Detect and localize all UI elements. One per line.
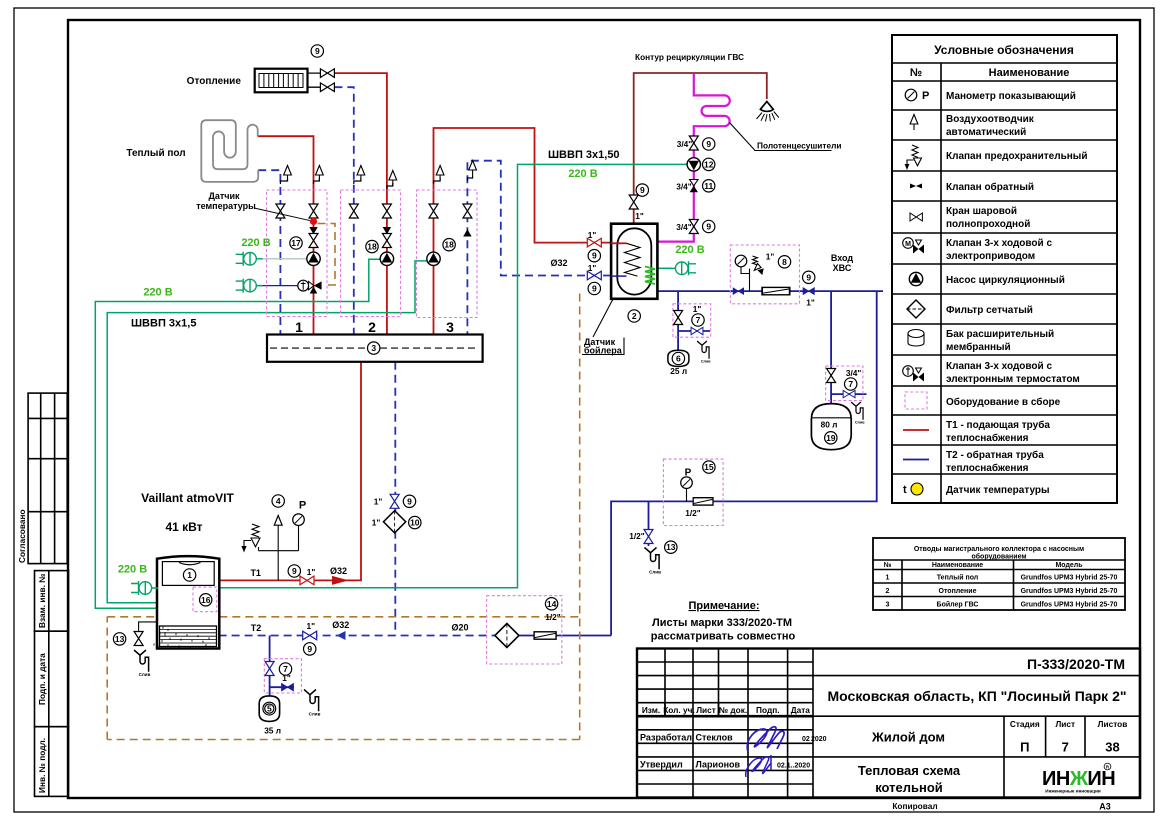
svg-text:№: № (910, 67, 922, 79)
svg-text:Отводы магистрального коллекто: Отводы магистрального коллектора с насос… (914, 546, 1084, 553)
svg-text:19: 19 (826, 433, 836, 443)
air vent triangles all groups (316, 166, 324, 182)
node 10 (409, 516, 421, 528)
box pump group 3 (417, 190, 478, 318)
wire branch to exp tank 6 (678, 291, 710, 350)
plug 220V 3way (236, 279, 263, 293)
svg-text:7: 7 (696, 315, 701, 325)
box 7 tank5 assembly (264, 659, 301, 693)
svg-text:220 В: 220 В (675, 244, 704, 256)
box8 gauge (735, 255, 747, 267)
svg-text:оборудованием: оборудованием (971, 553, 1026, 561)
svg-text:12: 12 (704, 159, 714, 169)
svg-text:№: № (884, 561, 892, 569)
node 3 circled (368, 342, 380, 354)
wire T1 floor supply to group1 (258, 136, 314, 334)
node 7 tank5 (279, 663, 291, 675)
svg-text:Вход: Вход (831, 253, 854, 263)
legend row11 equipment box symbol (905, 392, 927, 409)
svg-text:3: 3 (446, 319, 454, 335)
INJIN logo (1042, 763, 1115, 793)
floor heating coil (201, 120, 258, 182)
svg-text:Р: Р (922, 90, 929, 102)
box 7 tank6 assembly (673, 304, 711, 337)
drain tank6 (697, 341, 711, 363)
svg-text:13: 13 (115, 634, 125, 644)
exp tank 5 (259, 696, 279, 722)
svg-text:1/2": 1/2" (685, 508, 701, 518)
valve makeup drain 13 (644, 530, 653, 544)
temperature sensor dot (310, 218, 317, 225)
valve radiator supply (320, 69, 334, 78)
svg-text:Условные обозначения: Условные обозначения (934, 43, 1074, 57)
svg-text:Клапан обратный: Клапан обратный (946, 181, 1034, 193)
wire T2 solid after filter (519, 635, 611, 637)
svg-text:П-333/2020-ТМ: П-333/2020-ТМ (1027, 656, 1125, 672)
svg-text:Р: Р (299, 500, 306, 512)
wire makeup water down (611, 291, 877, 635)
legend row3 safety valve symbol (905, 145, 921, 169)
node 5 circled (263, 702, 276, 715)
node 6 circled (672, 352, 684, 364)
svg-text:2: 2 (886, 588, 890, 595)
svg-text:41 кВт: 41 кВт (165, 520, 202, 534)
boiler drain pipe 13 (139, 622, 158, 632)
svg-text:1": 1" (588, 230, 597, 240)
svg-text:1: 1 (886, 575, 890, 582)
node 17 (290, 237, 302, 249)
box 15 gauge assembly (663, 459, 723, 525)
wire plug1 to pump1 (pale) (257, 258, 307, 260)
svg-text:Стеклов: Стеклов (696, 733, 734, 743)
svg-text:220 В: 220 В (143, 287, 172, 299)
legend row5 ball valve symbol (910, 213, 922, 221)
svg-text:Оборудование в сборе: Оборудование в сборе (946, 396, 1061, 408)
svg-text:1/2": 1/2" (629, 531, 645, 541)
signature scribble 1 (747, 727, 784, 752)
valve 9 XVS (803, 288, 814, 295)
title block grid (637, 649, 1140, 798)
node 15 (703, 461, 715, 473)
svg-text:1": 1" (372, 518, 381, 528)
node 9 tank blue (588, 282, 600, 294)
plug 220V tank (mirrored) (669, 261, 696, 275)
wire 220V to pump2 (green) (95, 259, 380, 608)
valve T2 1" (303, 631, 317, 640)
left margin boxes Взам/Подп/Инв (35, 571, 69, 797)
pump 12 recirc (687, 158, 700, 171)
svg-text:15: 15 (704, 462, 714, 472)
svg-text:Московская область, КП "Лосины: Московская область, КП "Лосиный Парк 2" (828, 688, 1127, 704)
svg-text:02.1..2020: 02.1..2020 (777, 763, 810, 770)
node 8 (778, 256, 790, 268)
svg-text:Т1 - подающая труба: Т1 - подающая труба (946, 419, 1050, 431)
svg-text:25 л: 25 л (670, 366, 687, 376)
svg-text:Т2 - обратная труба: Т2 - обратная труба (946, 449, 1044, 461)
svg-text:9: 9 (592, 284, 597, 294)
svg-text:Дата: Дата (791, 705, 811, 715)
check valve box8 (733, 288, 744, 294)
svg-text:1": 1" (307, 621, 316, 631)
node 12 (703, 158, 715, 170)
flex 14 (534, 632, 556, 639)
legend row7 pump symbol (909, 272, 922, 285)
svg-text:4: 4 (276, 496, 281, 506)
svg-text:ХВС: ХВС (833, 263, 852, 273)
wire 220V tank to boiler (green) (219, 164, 687, 587)
check valve 11 magenta (690, 180, 698, 193)
svg-text:1": 1" (766, 252, 775, 262)
svg-text:3: 3 (886, 602, 890, 609)
node 13 makeup (665, 541, 677, 553)
svg-text:Р: Р (685, 468, 692, 479)
svg-text:5: 5 (267, 704, 272, 714)
svg-text:Копировал: Копировал (892, 801, 937, 811)
svg-text:ИНЖИН: ИНЖИН (1042, 768, 1115, 790)
node 16 circled (200, 594, 212, 606)
svg-text:9: 9 (706, 222, 711, 232)
svg-text:9: 9 (640, 185, 645, 195)
svg-text:Разработал: Разработал (640, 733, 692, 743)
svg-text:мембранный: мембранный (946, 341, 1011, 353)
svg-text:1": 1" (693, 304, 702, 314)
valve tank6 branch (674, 311, 683, 325)
valve tank blue return (587, 271, 601, 280)
check valve group1 (309, 227, 317, 234)
svg-text:16: 16 (201, 595, 211, 605)
plug 220V boiler (131, 581, 158, 595)
safety group relief valve (242, 524, 260, 551)
svg-text:80 л: 80 л (821, 420, 838, 430)
svg-text:3: 3 (371, 343, 376, 353)
shower symbol (757, 102, 779, 122)
svg-text:7: 7 (1062, 740, 1069, 755)
wire brown sensor to 3way valve (318, 224, 336, 286)
boiler burner hatch (154, 626, 217, 650)
air vent group1 blue (280, 166, 291, 185)
wire towel rail serpentine (magenta) (657, 73, 729, 241)
svg-text:Фильтр сетчатый: Фильтр сетчатый (946, 305, 1033, 316)
svg-text:9: 9 (592, 251, 597, 261)
svg-text:Клапан 3-х ходовой с: Клапан 3-х ходовой с (946, 238, 1052, 249)
svg-text:Бойлер ГВС: Бойлер ГВС (937, 601, 979, 609)
wire radiator return (blue dashed) (334, 87, 353, 334)
svg-text:Клапан 3-х ходовой с: Клапан 3-х ходовой с (946, 361, 1052, 372)
svg-text:Vaillant atmoVIT: Vaillant atmoVIT (141, 491, 234, 505)
node 4 circled (272, 495, 284, 507)
legend row12 T1 line symbol (903, 429, 929, 431)
valve radiator return (320, 83, 334, 92)
node 18 group3 (443, 239, 455, 251)
svg-text:Полотенцесушители: Полотенцесушители (757, 141, 841, 151)
svg-text:электроприводом: электроприводом (946, 251, 1035, 262)
pump group1 (307, 252, 320, 265)
svg-text:1": 1" (374, 497, 383, 507)
svg-text:1": 1" (282, 673, 291, 683)
svg-text:Насос циркуляционный: Насос циркуляционный (946, 275, 1065, 286)
valve group2 red lower (382, 234, 391, 248)
svg-text:Взам. инв. №: Взам. инв. № (37, 573, 47, 628)
left margin approval table (28, 393, 67, 563)
svg-text:9: 9 (315, 46, 320, 56)
3way valve group1 with thermostat (298, 280, 322, 293)
svg-text:13: 13 (666, 542, 676, 552)
svg-text:10: 10 (410, 518, 420, 528)
svg-text:1/2": 1/2" (545, 612, 561, 622)
box 14 filter assembly (487, 596, 562, 664)
node 9 XVS (803, 271, 815, 283)
box 7 tank 80l assembly (826, 366, 863, 401)
sensor leader line (254, 208, 310, 221)
DHW tank (boiler GVS) (611, 224, 657, 299)
svg-text:полнопроходной: полнопроходной (946, 219, 1030, 230)
check valve group2 (383, 227, 391, 234)
svg-text:Листов: Листов (1098, 719, 1128, 729)
valve T1 1" (300, 576, 314, 585)
legend row1 gauge symbol (905, 89, 929, 102)
svg-text:Модель: Модель (1055, 562, 1083, 569)
wire branch to exp tank 80l (831, 291, 866, 404)
valve group1 blue (276, 204, 285, 218)
svg-text:2020: 2020 (811, 736, 827, 743)
svg-text:18: 18 (444, 240, 454, 250)
svg-text:Подп.: Подп. (756, 705, 780, 715)
node 9 tank red (588, 250, 600, 262)
svg-text:Согласовано: Согласовано (17, 509, 27, 563)
svg-text:t: t (903, 484, 907, 496)
wire T2 boiler to filter14 (blue dashed) (219, 635, 496, 637)
svg-text:3/4": 3/4" (846, 368, 862, 378)
svg-text:9: 9 (806, 272, 811, 282)
svg-text:Подп. и дата: Подп. и дата (37, 653, 47, 705)
node 7 80l (845, 378, 857, 390)
svg-text:220 В: 220 В (568, 168, 597, 180)
svg-text:1: 1 (295, 319, 303, 335)
box 16 in boiler (193, 587, 217, 612)
svg-text:35 л: 35 л (264, 726, 281, 736)
flow arrow T2 (337, 631, 346, 640)
svg-text:220 В: 220 В (118, 564, 147, 576)
svg-text:Инженерные инновации: Инженерные инновации (1045, 789, 1101, 794)
svg-text:18: 18 (367, 242, 377, 252)
air vent group3 blue (467, 176, 472, 181)
air vent group2 blue (354, 178, 361, 184)
svg-text:Примечание:: Примечание: (688, 600, 759, 612)
svg-text:теплоснабжения: теплоснабжения (946, 462, 1029, 474)
svg-text:П: П (1020, 740, 1029, 755)
node 14 (545, 598, 557, 610)
svg-text:Тепловая схема: Тепловая схема (858, 763, 961, 778)
tank sensor label box (582, 338, 624, 355)
svg-text:3/4": 3/4" (677, 139, 693, 149)
signature scribble 2 (746, 755, 771, 777)
air vent group1 red (314, 178, 320, 184)
legend row2 air vent symbol (910, 115, 918, 131)
svg-text:автоматический: автоматический (946, 127, 1026, 138)
filter 10 strainer (383, 511, 405, 533)
legend row8 filter symbol (907, 300, 925, 318)
svg-text:2: 2 (632, 311, 637, 321)
safety group: riser (259, 525, 299, 580)
node 13 circled (113, 633, 125, 645)
svg-text:Ø20: Ø20 (451, 623, 468, 633)
node 9 magenta bottom (703, 220, 715, 232)
legend row14 temperature sensor symbol (903, 483, 923, 496)
drain 13 (645, 548, 662, 575)
svg-text:11: 11 (704, 181, 713, 191)
svg-text:1: 1 (187, 570, 192, 580)
box15 gauge (686, 489, 688, 502)
pump table Отводы магистрального коллектора (873, 538, 1125, 610)
valve group1 red upper (309, 204, 318, 218)
pump group2 (380, 252, 393, 265)
box pump group 1 (267, 190, 328, 317)
svg-text:1": 1" (635, 211, 644, 221)
svg-text:14: 14 (547, 599, 557, 609)
exp tank 80l (811, 404, 851, 450)
svg-text:ШВВП 3х1,50: ШВВП 3х1,50 (548, 149, 620, 161)
legend row9 expansion tank symbol (908, 330, 924, 347)
air vent group2 red (387, 183, 393, 189)
wire floor return (blue dashed) (258, 170, 280, 334)
svg-text:17: 17 (291, 238, 301, 248)
svg-text:Grundfos UPM3 Hybrid 25-70: Grundfos UPM3 Hybrid 25-70 (1021, 602, 1118, 609)
svg-text:1": 1" (307, 567, 316, 577)
filter 14 (495, 624, 519, 648)
safety group air vent (274, 516, 282, 526)
wire T1 boiler to manifold (219, 362, 361, 581)
air vent group3 red (434, 178, 441, 184)
pump group3 (427, 252, 440, 265)
wire brown boiler control box (107, 294, 580, 740)
svg-text:Теплый пол: Теплый пол (126, 148, 185, 159)
svg-text:Датчик: Датчик (208, 191, 240, 201)
exp tank 6 (668, 350, 689, 366)
valve boiler drain (134, 632, 143, 646)
valve tank red inlet (587, 238, 601, 247)
node 11 (703, 180, 715, 192)
box 8 safety group (730, 245, 799, 304)
svg-text:электронным термостатом: электронным термостатом (946, 374, 1080, 385)
node 9 recirc (636, 184, 648, 196)
wire makeup drain branch 13 (648, 501, 650, 546)
valve group2 red upper (382, 204, 391, 218)
legend row6 3-way motor valve symbol (903, 238, 924, 254)
svg-text:Датчик температуры: Датчик температуры (946, 485, 1050, 496)
svg-text:9: 9 (407, 496, 412, 506)
manifold collector (267, 335, 483, 362)
svg-text:бойлера: бойлера (584, 346, 623, 356)
wire 220V to pump3 (green) (107, 261, 427, 603)
svg-text:2: 2 (368, 319, 376, 335)
svg-text:котельной: котельной (875, 780, 943, 795)
svg-text:Ларионов: Ларионов (696, 760, 741, 770)
check valve group3 (up) (463, 229, 471, 236)
node 9 T1 (288, 565, 300, 577)
svg-text:температуры: температуры (196, 201, 256, 211)
svg-text:теплоснабжения: теплоснабжения (946, 432, 1029, 444)
wire tank heater plug (green) (657, 267, 671, 269)
node 9 radiator (311, 45, 323, 57)
svg-text:Ø32: Ø32 (332, 620, 349, 630)
tank sensor leader (593, 299, 613, 337)
node 9 manifold return (403, 495, 415, 507)
svg-text:Манометр показывающий: Манометр показывающий (946, 91, 1076, 102)
svg-text:Отопление: Отопление (187, 76, 242, 87)
svg-text:Теплый пол: Теплый пол (937, 574, 979, 582)
svg-text:Т1: Т1 (250, 568, 261, 578)
svg-text:220 В: 220 В (241, 237, 270, 249)
svg-text:7: 7 (848, 379, 853, 389)
plug 220V pump1 (236, 252, 263, 266)
wire tank primary return to group3 (blue dashed) (467, 161, 611, 335)
svg-text:Наименование: Наименование (989, 67, 1070, 79)
svg-text:Отопление: Отопление (939, 588, 977, 595)
svg-text:Клапан предохранительный: Клапан предохранительный (946, 151, 1087, 162)
wire cold water main (navy) (657, 290, 883, 292)
svg-text:Ø32: Ø32 (550, 258, 567, 268)
svg-text:1": 1" (588, 263, 597, 273)
svg-text:02: 02 (802, 736, 810, 743)
wire T1 radiator supply to group2 (334, 73, 387, 334)
node 2 circled (628, 310, 640, 322)
box8 flex connector (762, 287, 790, 294)
wire manifold return with filter (blue dashed) (394, 362, 396, 636)
valve group2 blue (349, 204, 358, 218)
svg-text:9: 9 (292, 566, 297, 576)
box15 flex (693, 498, 713, 505)
box pump group 2 (341, 190, 401, 317)
node 18 group2 (366, 240, 378, 252)
node 1 circled (183, 569, 195, 581)
box8 gauge assembly (741, 256, 763, 291)
node 9 magenta top (703, 138, 715, 150)
svg-text:8: 8 (782, 257, 787, 267)
svg-text:1": 1" (806, 298, 815, 308)
bowtie valve tank5 (282, 684, 294, 691)
svg-text:Лист: Лист (1055, 719, 1075, 729)
svg-text:Изм.: Изм. (642, 705, 660, 715)
svg-text:Кран шаровой: Кран шаровой (946, 206, 1017, 217)
svg-text:Grundfos UPM3 Hybrid 25-70: Grundfos UPM3 Hybrid 25-70 (1021, 575, 1118, 582)
flow arrow T1 (332, 576, 349, 585)
svg-text:Воздухоотводчик: Воздухоотводчик (946, 114, 1035, 125)
svg-text:Кол. уч.: Кол. уч. (663, 705, 695, 715)
node 7 tank6 (692, 314, 704, 326)
svg-text:Наименование: Наименование (932, 562, 983, 569)
svg-text:Листы марки 333/2020-ТМ: Листы марки 333/2020-ТМ (652, 617, 792, 629)
valve magenta 3/4 top (689, 136, 698, 150)
radiator Отопление (255, 69, 321, 93)
valve recirc top 9 (629, 195, 638, 209)
svg-text:А3: А3 (1099, 802, 1111, 812)
svg-text:ШВВП 3х1,5: ШВВП 3х1,5 (131, 318, 196, 330)
safety group gauge (293, 514, 305, 526)
valve group1 red lower (309, 234, 318, 248)
svg-text:Утвердил: Утвердил (640, 760, 683, 770)
svg-text:3/4": 3/4" (676, 182, 692, 192)
svg-text:Ø32: Ø32 (330, 566, 347, 576)
legend row13 T2 line symbol (903, 459, 929, 461)
svg-text:Стадия: Стадия (1010, 719, 1040, 729)
drain symbol boiler (134, 650, 151, 677)
svg-text:Лист: Лист (696, 705, 716, 715)
legend row4 check valve symbol (910, 184, 922, 189)
valve magenta 3/4 bottom (689, 220, 698, 234)
wire DHW recirculation top (maroon) (634, 73, 767, 224)
svg-text:Жилой дом: Жилой дом (871, 730, 945, 745)
svg-text:М: М (905, 241, 911, 248)
